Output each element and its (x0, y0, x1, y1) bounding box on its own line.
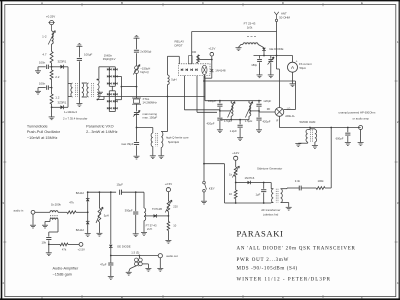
svg-text:+12V: +12V (232, 151, 239, 155)
svg-text:Push-Pull Oscillator: Push-Pull Oscillator (27, 130, 61, 134)
svg-text:2...3mW at 14MHz: 2...3mW at 14MHz (86, 130, 118, 134)
svg-text:high-Q: high-Q (140, 70, 149, 74)
svg-text:4.7: 4.7 (42, 53, 47, 57)
svg-text:ADE-1L: ADE-1L (285, 114, 295, 118)
svg-text:+2.5V: +2.5V (165, 182, 173, 186)
svg-text:1k:200k: 1k:200k (51, 202, 61, 206)
svg-text:Sidetone Generator: Sidetone Generator (257, 166, 282, 170)
svg-text:PARASAKI: PARASAKI (237, 228, 284, 238)
svg-text:A: A (41, 296, 43, 300)
svg-text:audio out: audio out (166, 254, 178, 258)
svg-text:3.3n: 3.3n (295, 179, 301, 183)
svg-text:DPDT: DPDT (175, 44, 183, 48)
svg-text:15μF: 15μF (117, 182, 124, 186)
svg-text:47k: 47k (69, 200, 74, 204)
svg-text:10: 10 (173, 224, 176, 228)
svg-text:E: E (361, 296, 363, 300)
svg-text:10: 10 (229, 192, 233, 196)
svg-text:100n: 100n (39, 81, 46, 85)
svg-text:E: E (361, 1, 363, 5)
svg-text:1μF: 1μF (256, 193, 261, 197)
svg-text:+: + (296, 60, 298, 64)
svg-text:5μH/4μH: 5μH/4μH (168, 140, 179, 144)
svg-text:1.2: 1.2 (55, 96, 60, 100)
svg-text:120pF: 120pF (208, 99, 216, 103)
svg-text:2.2: 2.2 (55, 75, 60, 79)
svg-text:or audio amp: or audio amp (353, 116, 370, 120)
svg-text:+2.5V: +2.5V (78, 247, 86, 251)
svg-text:1.5μH: 1.5μH (245, 119, 253, 123)
svg-text:420pF: 420pF (263, 120, 271, 124)
svg-text:3Z3R1: 3Z3R1 (58, 59, 67, 63)
svg-text:BA112: BA112 (76, 191, 85, 195)
svg-text:39pF@1V: 39pF@1V (103, 57, 116, 61)
svg-text:FT 37-43: FT 37-43 (146, 224, 157, 228)
svg-text:FS current: FS current (299, 62, 312, 66)
svg-text:120pF: 120pF (263, 99, 271, 103)
svg-text:unampl.powered HP 600Ohm: unampl.powered HP 600Ohm (339, 111, 376, 115)
svg-text:~10mW at 15MHz: ~10mW at 15MHz (27, 136, 58, 140)
svg-text:Audio-Amplifier: Audio-Amplifier (53, 267, 79, 271)
svg-text:PWR OUT 2...3mW: PWR OUT 2...3mW (237, 258, 290, 263)
svg-text:600pF: 600pF (336, 137, 344, 141)
svg-text:2 x 7.35.4 binocular: 2 x 7.35.4 binocular (63, 116, 87, 120)
svg-text:2x7t: 2x7t (147, 227, 152, 231)
svg-text:WINTER 11/12 - PETER/DL3PR: WINTER 11/12 - PETER/DL3PR (237, 277, 332, 282)
svg-text:420pF: 420pF (207, 122, 215, 126)
svg-text:MDS -90/-105dBm (S4): MDS -90/-105dBm (S4) (237, 266, 298, 271)
svg-text:+0.25V: +0.25V (46, 15, 55, 19)
svg-text:47μF: 47μF (100, 263, 107, 267)
svg-text:jukebox fnd: jukebox fnd (263, 213, 279, 217)
svg-text:Parametric VXO: Parametric VXO (86, 124, 113, 128)
svg-text:14.260MHz: 14.260MHz (143, 100, 158, 104)
svg-text:100k: 100k (317, 179, 324, 183)
svg-text:47k: 47k (62, 247, 67, 251)
svg-text:220: 220 (173, 205, 178, 209)
svg-text:1t/3t: 1t/3t (247, 26, 253, 30)
svg-text:50μA: 50μA (300, 66, 307, 70)
svg-text:1.2μF: 1.2μF (230, 129, 237, 133)
svg-text:5μH: 5μH (171, 78, 176, 82)
svg-text:2x300(p): 2x300(p) (140, 50, 151, 54)
svg-text:audio in: audio in (14, 209, 24, 213)
svg-text:1-2: 1-2 (42, 34, 47, 38)
svg-text:max. 150pF: max. 150pF (143, 116, 158, 120)
svg-text:50/600 OHM: 50/600 OHM (300, 120, 317, 124)
svg-text:1N3716: 1N3716 (245, 176, 255, 180)
svg-text:100μF: 100μF (84, 52, 92, 56)
svg-text:1+10kΩ+3: 1+10kΩ+3 (64, 110, 77, 114)
svg-text:AN 'ALL DIODE' 20m QSK TRANSCE: AN 'ALL DIODE' 20m QSK TRANSCEIVER (237, 246, 356, 251)
svg-text:1N4148: 1N4148 (215, 69, 226, 73)
svg-text:+12V: +12V (208, 46, 215, 50)
svg-text:max 39pF: max 39pF (121, 142, 134, 146)
svg-text:RF: RF (267, 107, 271, 111)
svg-text:B: B (121, 296, 123, 300)
svg-text:TO712B: TO712B (152, 207, 162, 211)
svg-text:BA112: BA112 (76, 228, 85, 232)
svg-text:600: 600 (192, 50, 197, 54)
svg-text:1:3 (3): 1:3 (3) (131, 250, 139, 254)
svg-text:5μH: 5μH (104, 214, 109, 218)
svg-text:GE DIODE: GE DIODE (117, 245, 131, 249)
svg-text:100n: 100n (39, 60, 46, 64)
svg-text:A: A (41, 1, 43, 5)
svg-text:180p: 180p (251, 63, 257, 67)
svg-text:KEY: KEY (209, 187, 215, 191)
svg-text:50 OHM: 50 OHM (279, 15, 290, 19)
svg-text:B: B (121, 1, 123, 5)
svg-text:390pF: 390pF (125, 208, 133, 212)
svg-text:~15dB gain: ~15dB gain (53, 272, 72, 276)
svg-text:10k: 10k (41, 241, 46, 245)
svg-text:Tunneldiode: Tunneldiode (27, 124, 48, 128)
svg-text:3Z3R1: 3Z3R1 (58, 100, 67, 104)
